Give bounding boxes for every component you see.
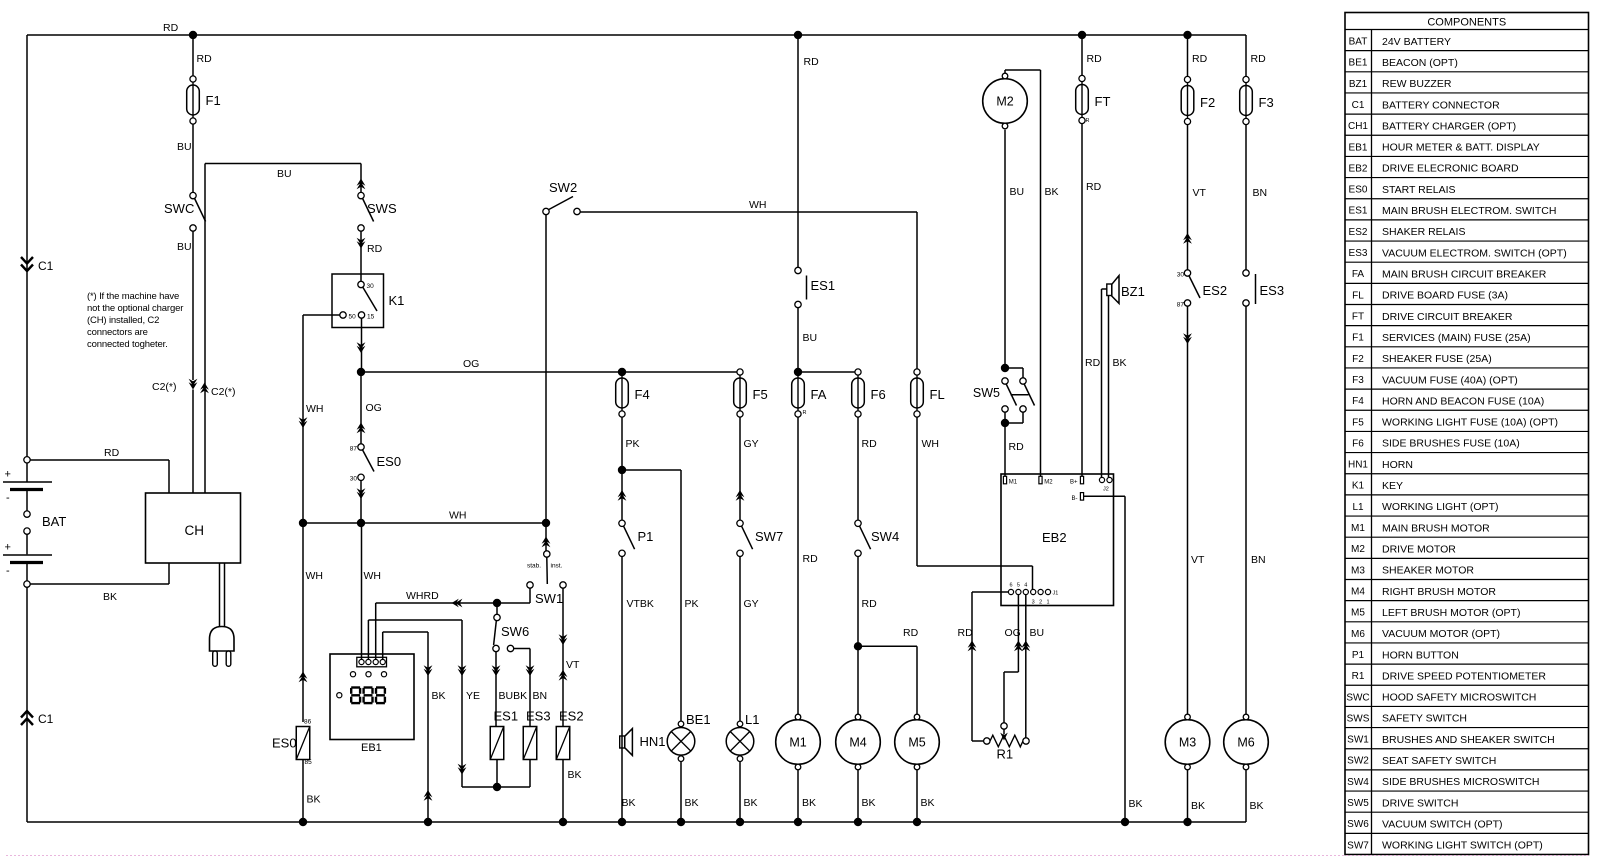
svg-text:not the optional charger: not the optional charger: [87, 303, 183, 314]
svg-text:VACUUM FUSE (40A) (OPT): VACUUM FUSE (40A) (OPT): [1382, 374, 1518, 386]
wire: BU SWC to C2 connector: [192, 231, 194, 378]
relay coil ES0: [296, 727, 310, 760]
wire: VTBK P1 to horn HN1 and ground: [621, 557, 623, 823]
svg-text:J1: J1: [1053, 591, 1059, 597]
node: ground junction ES2: [559, 818, 567, 826]
wire: BN SW6 right contact to ES3 coil: [514, 648, 530, 650]
svg-text:M1: M1: [1351, 523, 1365, 534]
table row SW2: [1345, 748, 1589, 750]
switch SW2 seat safety switch: [543, 208, 549, 214]
table row SWS: [1345, 705, 1589, 707]
svg-text:R1: R1: [1352, 671, 1365, 682]
switch SW7 working light switch: [737, 520, 743, 526]
wire: RD rail end to F3: [1245, 35, 1247, 77]
svg-text:MAIN BRUSH CIRCUIT BREAKER: MAIN BRUSH CIRCUIT BREAKER: [1382, 268, 1547, 280]
svg-text:WHRD: WHRD: [406, 590, 439, 602]
svg-text:VT: VT: [566, 659, 580, 671]
switch SW5 drive switch (double pole): [1001, 364, 1009, 372]
relay coil ES3: [523, 727, 537, 760]
node: ground junction BK x428: [424, 818, 432, 826]
drive motor M2: [983, 73, 1028, 129]
svg-text:WH: WH: [449, 510, 467, 522]
svg-text:L1: L1: [745, 712, 759, 727]
svg-text:REW BUZZER: REW BUZZER: [1382, 78, 1452, 90]
node: ground junction B-: [1121, 818, 1129, 826]
svg-text:SWS: SWS: [367, 201, 397, 216]
drive electronic board EB2 box: [1001, 474, 1114, 606]
wire: BK M2 top to EB2 M2 pin: [1004, 70, 1006, 73]
vacuum motor M6: [1224, 714, 1269, 770]
wire: BU branch from C2 right half to SWS: [205, 163, 361, 165]
svg-text:VACUUM MOTOR (OPT): VACUUM MOTOR (OPT): [1382, 628, 1500, 640]
EB1 connector block: [357, 657, 387, 667]
svg-text:SEAT SAFETY SWITCH: SEAT SAFETY SWITCH: [1382, 755, 1496, 767]
table row F2: [1345, 346, 1589, 348]
table row K1: [1345, 473, 1589, 475]
connector C1 upper half (chevrons): [21, 257, 33, 264]
svg-text:WH: WH: [364, 570, 382, 582]
wire: BK M5 to ground rail: [916, 770, 918, 822]
svg-text:CH: CH: [185, 523, 205, 538]
svg-text:stab.: stab.: [527, 563, 541, 570]
wire: BK M6 to ground rail end: [1245, 770, 1247, 822]
table row SW4: [1345, 769, 1589, 771]
svg-text:RD: RD: [1009, 441, 1025, 453]
svg-text:ES3: ES3: [1349, 248, 1368, 259]
wire: RD FA to main brush motor M1: [797, 417, 799, 720]
wire: RD F6 to SW4: [857, 417, 859, 520]
EB2 pin M2: [1039, 476, 1042, 484]
table row F1: [1345, 325, 1589, 327]
wire: RD battery+ to CH: [30, 459, 169, 461]
svg-text:-: -: [6, 565, 10, 577]
right brush motor M4: [836, 714, 881, 770]
fuse F1 services main fuse: [187, 76, 200, 124]
svg-text:VT: VT: [1191, 554, 1205, 566]
wire: BK ES0 coil to ground rail: [302, 760, 304, 823]
svg-text:F2: F2: [1200, 95, 1215, 110]
svg-text:85: 85: [305, 759, 313, 766]
fuse F6 side brushes fuse: [852, 369, 865, 417]
table row F5: [1345, 409, 1589, 411]
wire: top RD supply rail: [27, 34, 1246, 36]
svg-text:F1: F1: [1352, 333, 1364, 344]
wire: WH ES0-30 down to WH rail: [360, 481, 362, 524]
svg-text:BK: BK: [744, 797, 758, 809]
svg-text:RD: RD: [804, 56, 820, 68]
wire: WHRD line EB1 pin3 to SW1/SW6 junction: [375, 603, 377, 660]
svg-text:50: 50: [349, 313, 357, 320]
svg-text:F6: F6: [1352, 438, 1364, 449]
svg-text:-: -: [6, 492, 10, 504]
svg-text:VT: VT: [1193, 187, 1207, 199]
svg-text:SW5: SW5: [1347, 798, 1369, 809]
svg-text:SW2: SW2: [549, 180, 577, 195]
svg-text:B+: B+: [1070, 480, 1078, 486]
svg-text:30: 30: [1177, 271, 1185, 278]
svg-text:RD: RD: [367, 243, 383, 255]
switch SWC hood safety microswitch: [190, 192, 196, 198]
wire: BK BE1 to ground rail: [680, 762, 682, 822]
svg-text:BU: BU: [277, 168, 292, 180]
svg-text:HN1: HN1: [1348, 460, 1368, 471]
svg-text:M3: M3: [1351, 565, 1365, 576]
CH mains cord: [219, 563, 221, 627]
svg-text:P1: P1: [1352, 650, 1365, 661]
svg-text:BU: BU: [177, 141, 192, 153]
svg-text:ES2: ES2: [1349, 227, 1368, 238]
connector C2 lower half (arrow up): [200, 383, 209, 394]
node: top rail junction at ES1 column: [794, 31, 802, 39]
EB2 connector J2: [1099, 477, 1104, 482]
wire: BU J1-4 to R1 right terminal: [1025, 595, 1027, 738]
svg-text:WH: WH: [922, 438, 940, 450]
wire: BK battery- to CH: [30, 583, 169, 585]
relay contact ES0 (87-30): [358, 444, 364, 450]
wire: BN ES3 to vacuum motor M6: [1245, 306, 1247, 714]
wire: RD SW5 to EB2 M1 pin: [1004, 423, 1006, 476]
svg-text:M6: M6: [1237, 736, 1254, 750]
svg-text:M5: M5: [1351, 608, 1365, 619]
EB2 pin B-: [1080, 493, 1083, 501]
node: ground junction M3: [1183, 818, 1191, 826]
svg-text:BK: BK: [568, 769, 582, 781]
svg-text:BK: BK: [1113, 357, 1127, 369]
wire: battery negative down to ground rail: [26, 587, 28, 822]
svg-text:4: 4: [1024, 583, 1027, 589]
svg-text:M5: M5: [908, 736, 925, 750]
wire: PK F4 to P1 junction: [621, 417, 623, 470]
svg-text:BN: BN: [1253, 187, 1268, 199]
wire: RD SWS to K1-30: [360, 231, 362, 281]
wire: BK M4 to ground rail: [857, 770, 859, 822]
node: top rail junction at F2: [1183, 31, 1191, 39]
node: ground junction M4: [854, 818, 862, 826]
table row M5: [1345, 600, 1589, 602]
wire: RD SW4 to right brush motor M4: [857, 557, 859, 717]
svg-text:SW1: SW1: [1347, 735, 1369, 746]
svg-text:30: 30: [367, 283, 375, 290]
svg-text:3: 3: [1032, 600, 1035, 606]
svg-text:M2: M2: [996, 95, 1013, 109]
svg-text:KEY: KEY: [1382, 480, 1403, 492]
svg-text:BAT: BAT: [1349, 37, 1368, 48]
svg-text:K1: K1: [389, 293, 405, 308]
main brush motor M1: [776, 714, 821, 770]
table row EB1: [1345, 134, 1589, 136]
svg-text:BZ1: BZ1: [1349, 79, 1368, 90]
node: PK branch junction: [618, 466, 626, 474]
svg-text:WORKING LIGHT SWITCH (OPT): WORKING LIGHT SWITCH (OPT): [1382, 840, 1543, 852]
svg-text:WORKING LIGHT (OPT): WORKING LIGHT (OPT): [1382, 501, 1498, 513]
table row ES3: [1345, 240, 1589, 242]
table row M3: [1345, 557, 1589, 559]
svg-text:VACUUM SWITCH (OPT): VACUUM SWITCH (OPT): [1382, 818, 1503, 830]
svg-text:SW5: SW5: [973, 386, 1000, 400]
svg-text:30: 30: [350, 476, 358, 483]
svg-text:START RELAIS: START RELAIS: [1382, 184, 1456, 196]
svg-text:B-: B-: [1072, 496, 1078, 502]
svg-text:RD: RD: [803, 553, 819, 565]
fuse F2 sheaker fuse: [1181, 76, 1194, 124]
svg-text:VACUUM ELECTROM. SWITCH (OPT): VACUUM ELECTROM. SWITCH (OPT): [1382, 247, 1567, 259]
svg-text:SW2: SW2: [1347, 756, 1369, 767]
svg-text:1: 1: [1046, 600, 1049, 606]
svg-text:BU: BU: [177, 241, 192, 253]
working light L1 lamp: [726, 721, 754, 761]
table row L1: [1345, 494, 1589, 496]
svg-text:EB2: EB2: [1042, 530, 1067, 545]
wire: BUBK SW6 left contact to ES1 coil: [495, 652, 497, 727]
svg-text:RD: RD: [903, 627, 919, 639]
svg-text:EB1: EB1: [1349, 142, 1368, 153]
wire: link FA to F6: [798, 371, 855, 373]
fuse FL drive board fuse: [911, 369, 924, 417]
node: ground junction HN1: [618, 818, 626, 826]
svg-text:C1: C1: [38, 259, 54, 273]
connector C1 lower half (chevrons): [21, 711, 33, 718]
svg-text:F5: F5: [753, 387, 768, 402]
node: top rail junction to F1: [189, 31, 197, 39]
table row FL: [1345, 282, 1589, 284]
wire: BN F3 to ES3: [1245, 125, 1247, 270]
switch SW6 vacuum switch: [496, 607, 498, 615]
table row EB2: [1345, 155, 1589, 157]
svg-text:M4: M4: [1351, 587, 1365, 598]
svg-text:FA: FA: [1352, 269, 1365, 280]
svg-text:M1: M1: [789, 736, 806, 750]
relay contact ES3 vacuum electromagnetic switch: [1243, 270, 1249, 276]
svg-text:C2(*): C2(*): [152, 381, 177, 393]
node: OG rail junction at K1 column: [357, 368, 365, 376]
wire: WH rail down to FL: [916, 212, 918, 369]
svg-text:C2(*): C2(*): [211, 386, 236, 398]
svg-text:OG: OG: [463, 358, 479, 370]
table row SW1: [1345, 727, 1589, 729]
svg-text:BK: BK: [307, 794, 321, 806]
svg-text:24V BATTERY: 24V BATTERY: [1382, 36, 1451, 48]
wire: WH rail down to EB1 connector pin1: [361, 523, 363, 660]
key switch K1 box: [332, 274, 384, 328]
svg-text:SHAKER RELAIS: SHAKER RELAIS: [1382, 226, 1465, 238]
svg-text:PK: PK: [626, 438, 640, 450]
node: junction ES1/FA/F6: [794, 368, 802, 376]
svg-text:RD: RD: [163, 22, 179, 34]
svg-text:F3: F3: [1259, 95, 1274, 110]
svg-text:HN1: HN1: [640, 734, 666, 749]
svg-text:RD: RD: [1086, 181, 1102, 193]
svg-text:RD: RD: [197, 53, 213, 65]
table row BE1: [1345, 50, 1589, 52]
svg-text:FT: FT: [1352, 312, 1364, 323]
svg-text:C1: C1: [38, 712, 54, 726]
svg-text:BK: BK: [1250, 800, 1264, 812]
wire: WH rail from K1-50/ES0 to SW1 feed: [303, 522, 546, 524]
table row C1: [1345, 92, 1589, 94]
svg-text:BE1: BE1: [686, 712, 711, 727]
wire: line EB1 pin2 to YE drop: [367, 620, 369, 660]
svg-text:RD: RD: [1085, 357, 1101, 369]
table row ES0: [1345, 177, 1589, 179]
svg-text:HOOD SAFETY MICROSWITCH: HOOD SAFETY MICROSWITCH: [1382, 692, 1536, 704]
svg-text:FL: FL: [1352, 290, 1364, 301]
svg-text:FA: FA: [811, 387, 827, 402]
svg-text:BK: BK: [1129, 798, 1143, 810]
wire: BU ES1 to FA: [797, 308, 799, 369]
wire: RD branch to left brush motor M5: [858, 645, 917, 647]
svg-text:BATTERY CONNECTOR: BATTERY CONNECTOR: [1382, 99, 1500, 111]
table row FT: [1345, 304, 1589, 306]
rew buzzer BZ1: [1107, 284, 1112, 296]
beacon BE1 lamp: [667, 721, 695, 761]
wire: VT ES2 to sheaker motor M3: [1187, 306, 1189, 714]
svg-text:K1: K1: [1352, 481, 1365, 492]
sheaker motor M3: [1165, 714, 1210, 770]
table row F3: [1345, 367, 1589, 369]
svg-text:WH: WH: [306, 570, 324, 582]
svg-text:RD: RD: [1192, 53, 1208, 65]
svg-text:BK: BK: [103, 591, 117, 603]
wire: RD rail to F2: [1187, 35, 1189, 77]
table row M2: [1345, 536, 1589, 538]
table row ES2: [1345, 219, 1589, 221]
svg-text:SW4: SW4: [1347, 777, 1369, 788]
svg-text:SW4: SW4: [871, 529, 899, 544]
wire: BK BZ1 to J2: [1108, 296, 1110, 478]
EB2 connector J1 pins: [1008, 589, 1013, 594]
svg-text:ES1: ES1: [811, 278, 836, 293]
svg-text:BK: BK: [685, 797, 699, 809]
battery BAT symbol: [24, 457, 30, 463]
svg-text:connectors are: connectors are: [87, 327, 148, 338]
circuit breaker FA main brush: [792, 369, 805, 417]
wire: BK M1 to ground rail: [797, 770, 799, 822]
svg-text:RD: RD: [1087, 53, 1103, 65]
svg-text:L1: L1: [1352, 502, 1364, 513]
wire: ES3 coil bottom to common: [529, 760, 531, 788]
wire: ES1 coil bottom to common: [496, 760, 498, 788]
svg-text:BN: BN: [533, 690, 548, 702]
svg-text:ES1: ES1: [494, 709, 519, 724]
switch SW1 brushes and sheaker switch: [544, 551, 550, 557]
svg-text:+: +: [5, 542, 11, 554]
svg-text:WORKING LIGHT FUSE (10A) (OPT): WORKING LIGHT FUSE (10A) (OPT): [1382, 417, 1558, 429]
hour meter EB1 box: [330, 654, 414, 740]
wire: WH rail to SW1 common: [545, 523, 547, 551]
svg-text:F1: F1: [206, 93, 221, 108]
components table header: [1345, 29, 1589, 31]
wire: into CH from C2 left: [192, 390, 194, 494]
svg-text:GY: GY: [744, 598, 759, 610]
node: OG rail junction at F4: [618, 368, 626, 376]
table row SW6: [1345, 811, 1589, 813]
potentiometer R1 drive speed: [984, 738, 990, 744]
svg-text:BK: BK: [622, 797, 636, 809]
relay coil ES1: [490, 727, 504, 760]
svg-text:SIDE BRUSHES MICROSWITCH: SIDE BRUSHES MICROSWITCH: [1382, 776, 1540, 788]
table row M6: [1345, 621, 1589, 623]
svg-text:SW6: SW6: [501, 624, 529, 639]
svg-text:J2: J2: [1103, 487, 1109, 493]
connector C2 upper half (arrow down): [189, 379, 198, 390]
node: coil common junction: [493, 783, 501, 791]
EB2 pin M1: [1003, 476, 1006, 484]
wire: GY SW7 to working light L1: [739, 557, 741, 724]
relay contact ES2 (30-87): [1184, 270, 1190, 276]
wire: RD top rail to ES1 contact: [797, 35, 799, 267]
table row M4: [1345, 579, 1589, 581]
node: M5 branch junction: [854, 642, 862, 650]
svg-text:PK: PK: [685, 598, 699, 610]
relay coil ES2: [556, 727, 570, 760]
svg-text:FL: FL: [930, 387, 945, 402]
svg-text:F5: F5: [1352, 417, 1364, 428]
table row CH1: [1345, 113, 1589, 115]
wire: OG from K1-15 to OG rail junction: [361, 318, 363, 372]
svg-text:WH: WH: [749, 199, 767, 211]
svg-text:ES1: ES1: [1349, 206, 1368, 217]
wire: WH FL to EB2 J1 pin3: [916, 417, 918, 566]
svg-text:C1: C1: [1352, 100, 1365, 111]
svg-text:EB2: EB2: [1349, 163, 1368, 174]
node: top rail junction at FT: [1078, 31, 1086, 39]
svg-text:SAFETY SWITCH: SAFETY SWITCH: [1382, 713, 1467, 725]
svg-text:M2: M2: [1351, 544, 1365, 555]
wire: BK ES2 coil to ground rail: [562, 760, 564, 823]
table row F4: [1345, 388, 1589, 390]
svg-text:COMPONENTS: COMPONENTS: [1427, 17, 1506, 29]
svg-text:F4: F4: [635, 387, 650, 402]
table row SW5: [1345, 790, 1589, 792]
svg-text:6: 6: [1009, 583, 1012, 589]
svg-text:HOUR METER & BATT. DISPLAY: HOUR METER & BATT. DISPLAY: [1382, 142, 1540, 154]
components table column divider: [1371, 30, 1373, 855]
wire: WH from K1-50 down to WH rail: [303, 314, 340, 316]
svg-text:RD: RD: [104, 447, 120, 459]
node: ground junction L1: [736, 818, 744, 826]
svg-text:BZ1: BZ1: [1121, 284, 1145, 299]
svg-text:EB1: EB1: [361, 742, 382, 754]
svg-text:YE: YE: [466, 690, 480, 702]
svg-text:BU: BU: [1010, 186, 1025, 198]
wire: SW1 stab contact to junction: [529, 588, 531, 603]
wire: WH rail down to ES0 relay coil: [302, 523, 304, 722]
wire: BU F1 to SWC: [192, 125, 194, 193]
svg-text:RD: RD: [958, 627, 974, 639]
svg-text:BK: BK: [921, 797, 935, 809]
svg-text:BUBK: BUBK: [499, 690, 528, 702]
node: WH rail junction at SW2 column: [542, 519, 550, 527]
wire: OG rail from K1-15 to F4/F5: [361, 371, 737, 373]
svg-text:F2: F2: [1352, 354, 1364, 365]
svg-text:FT: FT: [1095, 94, 1111, 109]
svg-text:DRIVE ELECRONIC BOARD: DRIVE ELECRONIC BOARD: [1382, 163, 1519, 175]
fuse F5 working light fuse: [734, 369, 747, 417]
node: WH rail junction at x303: [299, 519, 307, 527]
svg-text:R1: R1: [997, 747, 1014, 762]
wire: SW2 down through OG rail to WH rail: [545, 215, 547, 523]
svg-text:HORN BUTTON: HORN BUTTON: [1382, 649, 1459, 661]
components table frame: [1345, 13, 1589, 855]
wire: BK drop to ground rail: [427, 632, 429, 822]
svg-text:SWS: SWS: [1347, 713, 1370, 724]
svg-text:ES2: ES2: [559, 709, 584, 724]
wire: PK branch to BE1 beacon: [622, 469, 681, 471]
svg-text:DRIVE CIRCUIT BREAKER: DRIVE CIRCUIT BREAKER: [1382, 311, 1513, 323]
svg-text:RIGHT BRUSH MOTOR: RIGHT BRUSH MOTOR: [1382, 586, 1496, 598]
svg-text:BU: BU: [803, 332, 818, 344]
svg-text:M4: M4: [849, 736, 866, 750]
